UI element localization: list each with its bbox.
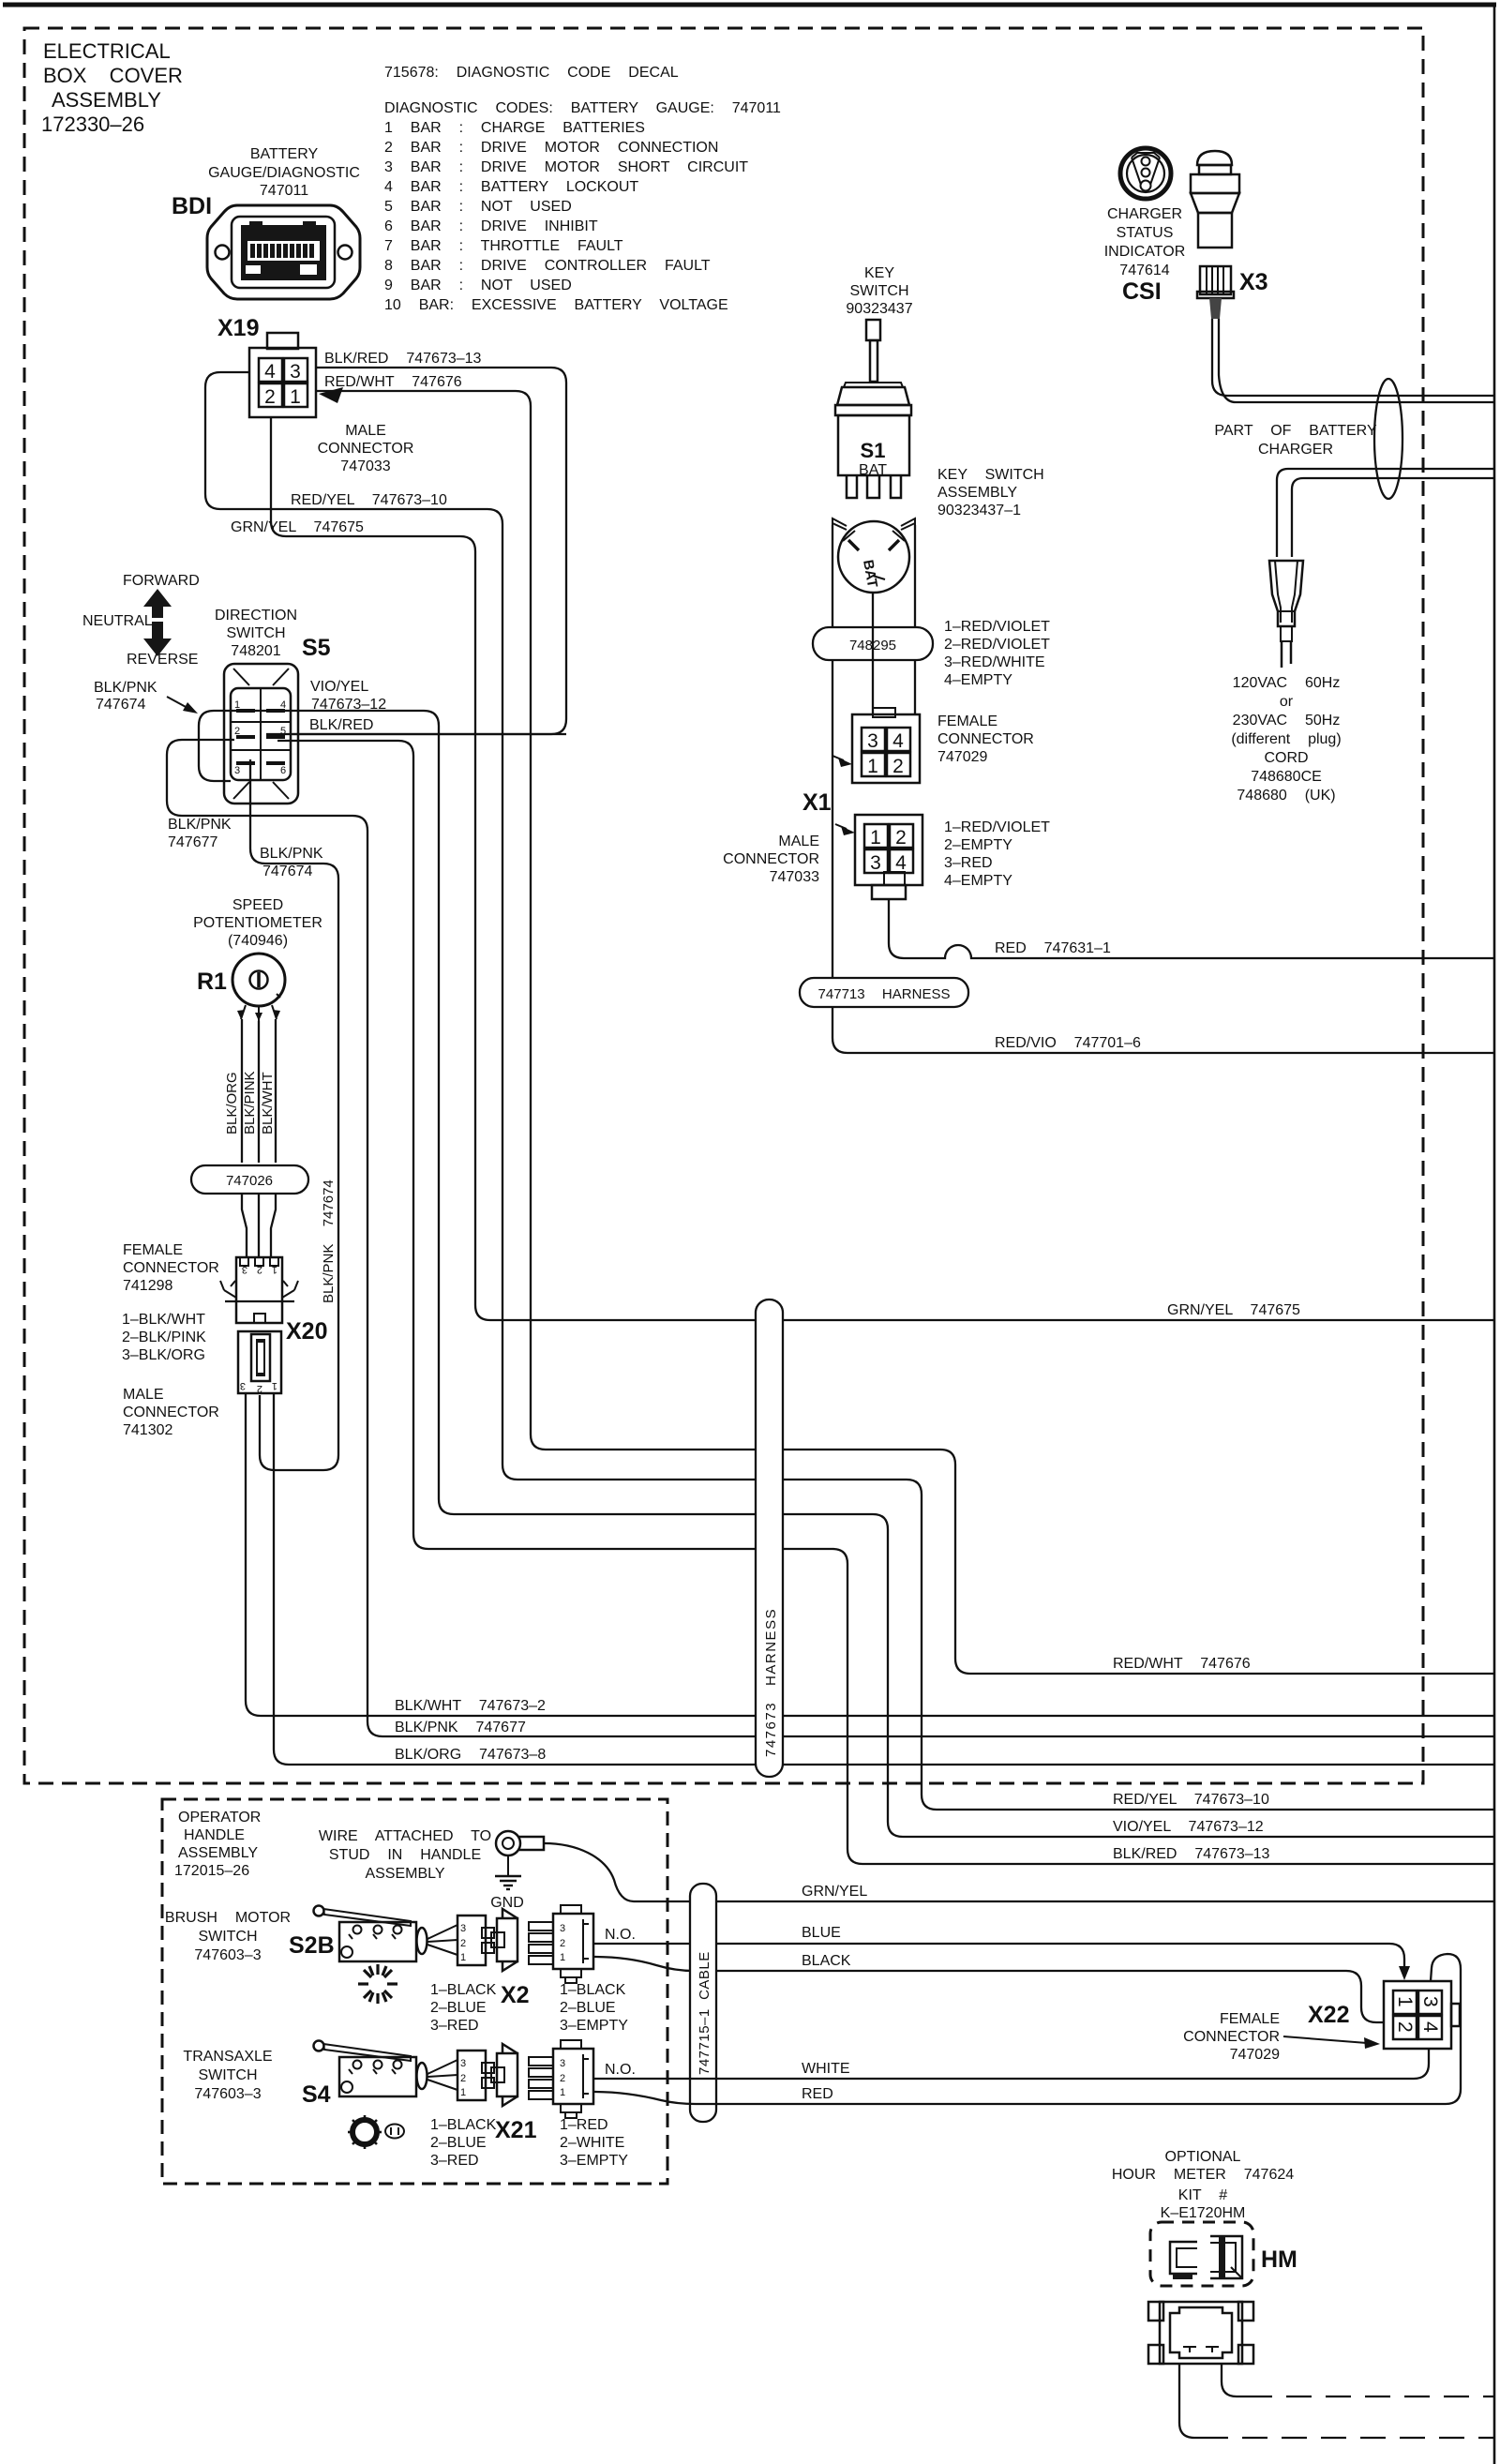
svg-text:FORWARD: FORWARD [123,573,200,589]
svg-text:3: 3 [290,361,301,383]
svg-text:4 BAR : BATTERY LOCKOUT: 4 BAR : BATTERY LOCKOUT [384,179,638,195]
svg-text:SWITCH: SWITCH [226,625,285,641]
wire ring terminal to GRN/YEL [544,1843,634,1901]
svg-text:2–WHITE: 2–WHITE [560,2135,624,2151]
svg-text:or: or [1280,694,1294,710]
X1 pin names 1-RED/VIOLET 2-RED/VIOLET 3-RED/WHITE 4-EMPTY [944,619,1050,688]
svg-text:BLK/PNK: BLK/PNK [168,817,232,833]
svg-text:120VAC 60Hz: 120VAC 60Hz [1233,675,1341,691]
svg-text:2–BLUE: 2–BLUE [430,2135,487,2151]
svg-text:KIT #: KIT # [1178,2187,1227,2203]
svg-text:X2: X2 [501,1982,530,2008]
label MALE CONNECTOR 747033 (X19) [318,423,414,474]
wire center lead circle to connector [872,593,874,714]
wire BLK/WHT pot to X20 [275,1019,277,1163]
svg-text:1 BAR : CHARGE BATTERIES: 1 BAR : CHARGE BATTERIES [384,120,645,136]
label FEMALE CONNECTOR 747029 (X22) with leader [1183,2011,1380,2063]
svg-text:1–RED/VIOLET: 1–RED/VIOLET [944,819,1050,835]
svg-text:2–EMPTY: 2–EMPTY [944,837,1012,853]
svg-text:RED/YEL 747673–10: RED/YEL 747673–10 [291,492,447,508]
svg-text:DIRECTION: DIRECTION [215,608,297,624]
svg-text:4–EMPTY: 4–EMPTY [944,672,1012,688]
direction arrows FORWARD/NEUTRAL/REVERSE [82,573,200,668]
svg-text:747715–1 CABLE: 747715–1 CABLE [697,1951,712,2075]
X2 mate pin names 1-BLACK 2-BLUE 3-EMPTY [560,1982,628,2034]
svg-text:3–RED: 3–RED [944,855,993,871]
svg-text:2: 2 [257,1264,262,1275]
svg-text:BLK/WHT 747673–2: BLK/WHT 747673–2 [395,1698,546,1714]
svg-text:ELECTRICAL: ELECTRICAL [43,39,171,63]
svg-text:BOX COVER: BOX COVER [43,64,183,87]
svg-text:3: 3 [867,730,878,752]
svg-text:2: 2 [895,827,907,849]
starburst icon [358,1964,397,2004]
svg-text:ASSEMBLY: ASSEMBLY [178,1845,258,1861]
wire RED from X21 to X22 pin3 (over the top) [593,1954,1461,2104]
wire BLK/RED 747673-13 lower : S5 pin5 to bottom right [277,741,1494,1864]
svg-text:230VAC 50Hz: 230VAC 50Hz [1233,713,1341,729]
svg-text:1: 1 [560,2087,565,2098]
dashed enclosure: ELECTRICAL BOX COVER ASSEMBLY [24,28,1423,1783]
wire WHITE from X21 to X22 [593,2050,1429,2079]
svg-text:RED/WHT 747676: RED/WHT 747676 [324,374,462,390]
svg-text:3–RED: 3–RED [430,2153,479,2169]
gear icon [348,2115,404,2149]
svg-text:CONNECTOR: CONNECTOR [723,851,819,867]
key assembly left lead down [832,525,833,600]
harness tag 747673 HARNESS (vertical) [756,1300,783,1777]
wire HM to dashed BLACK lead [1179,2364,1203,2438]
svg-text:2: 2 [1394,2021,1416,2033]
svg-text:747029: 747029 [937,749,987,765]
hour meter HM dashed outline [1150,2222,1253,2286]
svg-text:10 BAR: EXCESSIVE BATTERY: 10 BAR: EXCESSIVE BATTERY VOLTAGE [384,297,728,313]
svg-text:2–BLUE: 2–BLUE [560,2000,616,2016]
svg-text:STUD IN HANDLE: STUD IN HANDLE [329,1847,481,1863]
svg-text:HOUR METER 747624: HOUR METER 747624 [1112,2167,1294,2183]
label MALE CONNECTOR 747033 (X1) [723,834,819,885]
ground GND symbol [490,1856,524,1911]
svg-text:X21: X21 [495,2117,537,2143]
connector X21 female [457,2044,517,2106]
label KEY SWITCH 90323437 [846,265,912,317]
key switch S1 (toggle) [835,320,911,498]
svg-text:GRN/YEL 747675: GRN/YEL 747675 [1167,1302,1300,1318]
label MALE CONNECTOR 741302 [123,1387,219,1438]
svg-text:747603–3: 747603–3 [194,1947,261,1963]
direction switch S5 [224,664,298,804]
svg-text:2: 2 [234,726,240,737]
svg-text:S2B: S2B [289,1932,335,1959]
X20 pin names 1-BLK/WHT 2-BLK/PINK 3-BLK/ORG [122,1312,206,1363]
label KEY SWITCH ASSEMBLY 90323437-1 [937,467,1044,518]
svg-text:748680CE: 748680CE [1251,769,1322,785]
svg-text:BLK/RED 747673–13: BLK/RED 747673–13 [1113,1846,1270,1862]
svg-text:KEY: KEY [864,265,894,281]
svg-text:BATTERY: BATTERY [250,146,319,162]
svg-text:3: 3 [1419,1996,1441,2007]
svg-text:8 BAR : DRIVE CONTROLLER: 8 BAR : DRIVE CONTROLLER FAULT [384,258,711,274]
svg-text:BLK/WHT: BLK/WHT [260,1072,276,1134]
hour meter icon [1170,2236,1242,2279]
svg-text:VIO/YEL 747673–12: VIO/YEL 747673–12 [1113,1819,1264,1835]
svg-text:SWITCH: SWITCH [198,1929,257,1945]
svg-text:747033: 747033 [340,458,390,474]
svg-text:1–BLACK: 1–BLACK [560,1982,626,1998]
svg-text:MALE: MALE [123,1387,164,1403]
svg-text:1–BLACK: 1–BLACK [430,1982,497,1998]
svg-text:SWITCH: SWITCH [198,2067,257,2083]
svg-text:WIRE ATTACHED TO: WIRE ATTACHED TO [319,1828,491,1844]
wire BLK/RED 747673-13 : X19 pin3 to S5 pin5 [292,368,566,734]
connector X21 male [529,2040,593,2118]
wire AC cord pair from plug to page edge [1277,469,1494,557]
svg-text:K–E1720HM: K–E1720HM [1161,2205,1246,2221]
connector X2 female [457,1909,517,1971]
svg-text:747614: 747614 [1119,263,1169,278]
svg-text:RED/WHT 747676: RED/WHT 747676 [1113,1656,1251,1672]
svg-text:3: 3 [240,1380,246,1391]
connector X20 male 741302 [238,1331,281,1394]
svg-text:3: 3 [460,1923,466,1934]
svg-text:BLK/ORG 747673–8: BLK/ORG 747673–8 [395,1747,546,1763]
wire GRN/YEL to page edge [634,1901,1494,1902]
charger status indicator CSI icon [1120,148,1171,199]
svg-text:ASSEMBLY: ASSEMBLY [937,485,1017,501]
svg-text:CONNECTOR: CONNECTOR [123,1260,219,1276]
svg-text:SWITCH: SWITCH [849,283,908,299]
label CHARGER STATUS INDICATOR 747614 [1104,206,1186,278]
svg-text:WHITE: WHITE [802,2061,850,2077]
potentiometer R1 [232,954,285,1021]
page right border [1493,3,1496,2464]
wire right lead down to connector [914,600,916,714]
svg-text:2: 2 [460,1938,466,1949]
title text ELECTRICAL BOX COVER ASSEMBLY 172330-26 [41,39,183,136]
svg-text:747029: 747029 [1230,2047,1280,2063]
svg-text:BLUE: BLUE [802,1925,841,1941]
svg-text:1–BLACK: 1–BLACK [430,2117,497,2133]
svg-text:2–BLUE: 2–BLUE [430,2000,487,2016]
hour meter mating connector [1148,2302,1253,2364]
connector X20 female 741298 [220,1257,298,1323]
svg-text:RED/VIO 747701–6: RED/VIO 747701–6 [995,1035,1141,1051]
svg-text:N.O.: N.O. [605,1927,636,1943]
svg-text:TRANSAXLE: TRANSAXLE [183,2049,272,2065]
diagnostic codes list [384,100,781,313]
svg-text:KEY SWITCH: KEY SWITCH [937,467,1044,483]
label PART OF BATTERY CHARGER [1214,423,1377,458]
svg-text:1: 1 [272,1380,277,1391]
svg-text:S1: S1 [861,439,886,462]
svg-text:OPERATOR: OPERATOR [178,1810,261,1825]
svg-text:MALE: MALE [778,834,819,849]
wire BLK/WHT 747673-2 : X20 pin to page edge [246,1393,1494,1716]
indicator lamp icon [1191,151,1239,248]
svg-text:747674: 747674 [262,864,312,879]
svg-text:2: 2 [460,2073,466,2084]
svg-text:SPEED: SPEED [232,897,283,913]
wire RED/WHT 747676 : X19 pin1 down-right to page edge [316,391,1494,1674]
wing outlines [832,518,847,526]
microswitch S4 [314,2041,458,2097]
dashed enclosure: OPERATOR HANDLE ASSEMBLY [162,1799,667,2184]
X21 pin names 1-BLACK 2-BLUE 3-RED [430,2117,497,2169]
svg-text:1: 1 [290,386,301,408]
harness tag 748295 [813,627,933,660]
X2 pin names 1-BLACK 2-BLUE 3-RED [430,1982,497,2034]
svg-text:90323437: 90323437 [846,301,912,317]
svg-text:741302: 741302 [123,1422,172,1438]
svg-text:BLACK: BLACK [802,1953,851,1969]
svg-text:747673 HARNESS: 747673 HARNESS [763,1608,779,1757]
svg-text:1: 1 [870,827,881,849]
svg-text:747713 HARNESS: 747713 HARNESS [818,986,951,1002]
svg-text:CONNECTOR: CONNECTOR [318,441,414,457]
label WIRE ATTACHED TO STUD IN HANDLE ASSEMBLY [319,1828,491,1882]
svg-text:RED 747631–1: RED 747631–1 [995,940,1111,956]
microswitch S2B [314,1906,458,1962]
wire RED/VIO lead: circle to page edge (747701-6) [832,600,1494,1053]
connector X22 [1384,1981,1460,2049]
svg-text:DIAGNOSTIC CODES: BATTERY G: DIAGNOSTIC CODES: BATTERY GAUGE: 747011 [384,100,781,116]
connector X1 male 747033 [835,815,922,899]
svg-text:4: 4 [895,852,907,874]
svg-text:172015–26: 172015–26 [174,1863,249,1879]
svg-text:RED: RED [802,2086,833,2102]
svg-text:6 BAR : DRIVE INHIBIT: 6 BAR : DRIVE INHIBIT [384,218,598,234]
svg-text:90323437–1: 90323437–1 [937,503,1021,518]
svg-text:6: 6 [280,765,286,776]
svg-text:3: 3 [560,1923,565,1934]
connector female 747029 (key switch) [832,708,920,783]
svg-text:3: 3 [460,2058,466,2069]
svg-text:2–BLK/PINK: 2–BLK/PINK [122,1330,206,1345]
svg-text:747603–3: 747603–3 [194,2086,261,2102]
svg-text:NEUTRAL: NEUTRAL [82,613,153,629]
svg-text:X20: X20 [286,1318,327,1345]
svg-text:747673–12: 747673–12 [311,697,386,713]
svg-text:747677: 747677 [168,834,217,850]
svg-text:RED/YEL 747673–10: RED/YEL 747673–10 [1113,1792,1269,1808]
svg-text:INDICATOR: INDICATOR [1104,244,1186,260]
page top border [3,3,1496,8]
svg-text:747026: 747026 [226,1173,273,1189]
svg-text:ASSEMBLY: ASSEMBLY [365,1866,444,1882]
svg-text:FEMALE: FEMALE [1220,2011,1280,2027]
svg-text:(different plug): (different plug) [1231,731,1341,747]
label OPTIONAL HOUR METER 747624 KIT # K-E1720HM [1112,2149,1294,2221]
svg-text:3: 3 [870,852,881,874]
svg-text:MALE: MALE [345,423,386,439]
svg-text:747033: 747033 [770,869,819,885]
svg-text:2: 2 [560,2073,565,2084]
wire RED 747631-1 : X1 to page edge with loop [889,899,1494,958]
svg-text:9 BAR : NOT USED: 9 BAR : NOT USED [384,278,572,293]
dashed wire right (lower) [1203,2437,1494,2439]
AC plug icon [1269,561,1303,668]
svg-text:1–RED: 1–RED [560,2117,608,2133]
label FEMALE CONNECTOR 747029 [937,714,1034,765]
svg-text:5: 5 [280,726,286,737]
svg-text:REVERSE: REVERSE [127,652,198,668]
svg-text:1–RED/VIOLET: 1–RED/VIOLET [944,619,1050,635]
label OPERATOR HANDLE ASSEMBLY 172015-26 [174,1810,261,1879]
svg-text:5 BAR : NOT USED: 5 BAR : NOT USED [384,199,572,215]
wire BLK/ORG 747673-8 : X20 pin to page edge [274,1393,1494,1765]
X1 pin names 1-RED/VIOLET 2-EMPTY 3-RED 4-EMPTY [944,819,1050,889]
svg-text:X22: X22 [1308,2002,1349,2028]
svg-text:1: 1 [272,1264,277,1275]
svg-text:BRUSH MOTOR: BRUSH MOTOR [165,1910,291,1926]
svg-text:2–RED/VIOLET: 2–RED/VIOLET [944,637,1050,653]
label DIRECTION SWITCH 748201 [215,608,297,659]
svg-text:CONNECTOR: CONNECTOR [937,731,1034,747]
svg-text:CHARGER: CHARGER [1258,442,1333,458]
wire BLK/ORG pot to X20 [241,1019,243,1163]
svg-text:X19: X19 [217,315,259,341]
svg-text:BLK/PINK: BLK/PINK [242,1071,258,1134]
svg-text:HM: HM [1261,2246,1297,2273]
svg-text:CONNECTOR: CONNECTOR [1183,2029,1280,2045]
svg-text:1: 1 [460,1952,466,1963]
svg-text:3: 3 [242,1264,247,1275]
label BLK/PNK 747674 (S5 pin1) with leader arrow [94,680,198,714]
svg-text:S5: S5 [302,635,331,661]
svg-text:BLK/RED 747673–13: BLK/RED 747673–13 [324,351,482,367]
harness tag 747026 [191,1165,308,1194]
cable tag 747715-1 CABLE (vertical) [690,1884,716,2122]
label SPEED POTENTIOMETER (740946) [193,897,322,949]
svg-text:3–BLK/ORG: 3–BLK/ORG [122,1347,205,1363]
svg-text:1: 1 [460,2087,466,2098]
svg-text:1: 1 [234,699,240,711]
wire BLACK from X2 to X22 pin2 [593,1957,1385,2022]
svg-text:3 BAR : DRIVE MOTOR SHORT: 3 BAR : DRIVE MOTOR SHORT CIRCUIT [384,159,748,175]
svg-text:S4: S4 [302,2081,331,2108]
svg-text:2: 2 [560,1938,565,1949]
svg-text:4–EMPTY: 4–EMPTY [944,873,1012,889]
battery gauge label [208,146,360,199]
svg-text:GND: GND [490,1895,524,1911]
svg-text:CORD: CORD [1264,750,1308,766]
svg-text:BLK/PNK 747674: BLK/PNK 747674 [321,1179,337,1303]
svg-text:172330–26: 172330–26 [41,113,144,136]
harness tag 747713 HARNESS [800,978,968,1007]
svg-text:PART OF BATTERY: PART OF BATTERY [1214,423,1377,439]
svg-text:3–EMPTY: 3–EMPTY [560,2153,628,2169]
svg-text:BLK/PNK: BLK/PNK [94,680,157,696]
svg-text:X3: X3 [1239,269,1268,295]
svg-text:7 BAR : THROTTLE FAULT: 7 BAR : THROTTLE FAULT [384,238,623,254]
svg-text:BLK/RED: BLK/RED [309,717,373,733]
svg-text:OPTIONAL: OPTIONAL [1165,2149,1241,2165]
svg-text:3–RED: 3–RED [430,2018,479,2034]
wire BLUE from X2 to X22 pin1 [593,1944,1404,1975]
svg-text:N.O.: N.O. [605,2062,636,2078]
wire taper below 747026 to connector [242,1194,276,1257]
connector X19 (male connector 747033) [249,333,316,417]
svg-text:GRN/YEL: GRN/YEL [802,1884,867,1900]
svg-text:4: 4 [1419,2021,1441,2033]
svg-text:3–EMPTY: 3–EMPTY [560,2018,628,2034]
wire BLK/PNK 747674 : S5 pin3 to X20 pin2 [250,759,338,1470]
svg-text:747011: 747011 [260,183,308,199]
X21 mate pin names 1-RED 2-WHITE 3-EMPTY [560,2117,628,2169]
battery gauge BDI (panel meter) [207,205,360,299]
connector X2 male [529,1905,593,1983]
wire RED/YEL 747673-10 : X19 pin4 left loop down to page edge [205,372,1494,1810]
svg-text:HANDLE: HANDLE [184,1827,245,1843]
svg-text:BLK/ORG: BLK/ORG [224,1072,240,1134]
svg-text:2: 2 [257,1383,262,1394]
label FEMALE CONNECTOR 741298 [123,1242,219,1294]
wire GRN/YEL 747675 : X19 pin2 down to page edge [271,417,1494,1320]
svg-text:X1: X1 [802,789,832,816]
wire charger cord from X3 to page edge [1212,319,1494,396]
svg-text:BAT: BAT [859,462,887,478]
svg-text:2 BAR : DRIVE MOTOR CONNE: 2 BAR : DRIVE MOTOR CONNECTION [384,140,718,156]
svg-text:4: 4 [264,361,276,383]
svg-text:BDI: BDI [172,193,212,219]
svg-text:2: 2 [264,386,276,408]
svg-text:CHARGER: CHARGER [1107,206,1182,222]
connector X3 icon [1197,266,1234,319]
svg-text:ASSEMBLY: ASSEMBLY [52,88,161,112]
svg-text:741298: 741298 [123,1278,172,1294]
svg-text:4: 4 [892,730,904,752]
wire BLK/PNK 747677 : S5 pin2 loop to bottom right [167,740,1494,1736]
svg-text:715678: DIAGNOSTIC CODE DEC: 715678: DIAGNOSTIC CODE DECAL [384,65,679,81]
svg-text:CONNECTOR: CONNECTOR [123,1405,219,1420]
label 120VAC 60Hz cord block [1231,675,1341,804]
wire BLK/RED : S5 pin5 to X19 riser [266,733,566,735]
svg-text:1–BLK/WHT: 1–BLK/WHT [122,1312,205,1328]
svg-text:747674: 747674 [96,697,145,713]
label BRUSH MOTOR SWITCH 747603-3 [165,1910,291,1963]
svg-text:POTENTIOMETER: POTENTIOMETER [193,915,322,931]
svg-text:2: 2 [892,756,904,777]
dashed wire right (upper) [1247,2396,1494,2397]
svg-text:BLK/PNK 747677: BLK/PNK 747677 [395,1720,526,1735]
svg-text:1: 1 [1394,1996,1416,2007]
wire VIO/YEL 747673-12 : S5 pin4 to bottom right [237,711,1494,1837]
key switch assembly receptacle (circle) [832,521,915,593]
svg-text:748201: 748201 [231,643,280,659]
svg-text:R1: R1 [197,969,227,995]
svg-text:FEMALE: FEMALE [937,714,997,729]
svg-text:GAUGE/DIAGNOSTIC: GAUGE/DIAGNOSTIC [208,165,360,181]
wire HM to dashed RED lead [1222,2364,1247,2396]
wire BLK/PINK pot to X20 [258,1021,260,1163]
wire BLK/PNK 747674 left loop at S5 pin1 [199,711,237,781]
svg-text:748680 (UK): 748680 (UK) [1237,788,1335,804]
svg-text:1: 1 [560,1952,565,1963]
svg-text:3: 3 [234,765,240,776]
svg-text:1: 1 [867,756,878,777]
label TRANSAXLE SWITCH 747603-3 [183,2049,272,2102]
svg-text:4: 4 [280,699,286,711]
svg-text:(740946): (740946) [228,933,288,949]
arrowhead into X19 pin1 [319,387,343,403]
svg-text:BLK/PNK: BLK/PNK [260,846,323,862]
svg-text:CSI: CSI [1122,278,1162,305]
svg-text:STATUS: STATUS [1117,225,1174,241]
svg-text:3–RED/WHITE: 3–RED/WHITE [944,654,1045,670]
svg-text:3: 3 [560,2058,565,2069]
svg-text:VIO/YEL: VIO/YEL [310,679,368,695]
svg-text:FEMALE: FEMALE [123,1242,183,1258]
